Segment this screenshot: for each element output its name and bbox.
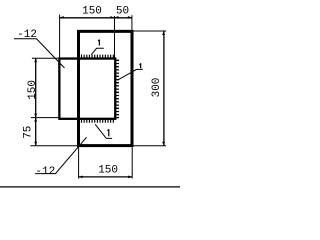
arrows on top dimension <box>60 16 64 19</box>
bottom dimension line (150) <box>79 176 133 178</box>
top dimension line (150 / 50) <box>60 17 132 19</box>
svg-text:50: 50 <box>116 5 129 17</box>
hatch teeth along top edge of inner region <box>82 54 114 57</box>
arrows on right dimension <box>162 31 165 35</box>
outer plate rectangle (150 x 300) <box>79 31 133 145</box>
extension line: outer rect bottom edge left <box>30 145 77 147</box>
svg-text:150: 150 <box>98 165 118 177</box>
hatch teeth along right edge of inner region <box>116 60 119 117</box>
extension line: outer rect right edge down <box>131 147 133 178</box>
svg-text:300: 300 <box>151 78 163 98</box>
right dimension line (300) <box>163 31 165 146</box>
arrows on bottom dimension <box>79 176 83 179</box>
hatch teeth along bottom edge of inner region <box>82 120 114 123</box>
svg-text:-12: -12 <box>35 166 55 178</box>
svg-text:75: 75 <box>23 126 35 139</box>
extension line: outer rect right edge up <box>131 15 133 30</box>
svg-text:150: 150 <box>82 5 102 17</box>
arrows on left dimension <box>34 58 37 62</box>
left dimension line (150 / 75) <box>35 58 37 145</box>
extension line: outer rect bottom edge right <box>134 145 167 147</box>
label 1 (right) with underline and leader to right hatch edge <box>140 63 141 68</box>
extension line: inner rect right edge up <box>114 16 116 58</box>
extension line: inner rect bottom edge left <box>31 117 58 119</box>
extension line: outer rect top edge right <box>134 30 167 32</box>
svg-text:150: 150 <box>27 80 39 100</box>
extension line: inner rect top edge left <box>32 57 58 59</box>
label 1 (bottom) with underline and leader to bottom hatch edge <box>108 129 109 136</box>
bottom page rule <box>0 186 180 188</box>
extension line: inner rect left edge up <box>59 15 61 58</box>
label 1 (top) with underline and leader to top hatch edge <box>98 40 99 46</box>
inner opening rectangle (left wall slot + hatched region) <box>59 59 115 119</box>
extension line: outer rect left edge down <box>78 147 80 178</box>
